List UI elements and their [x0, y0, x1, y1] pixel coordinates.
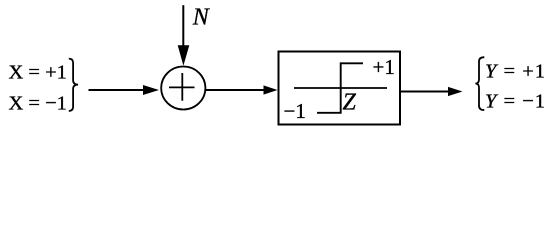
- output arrowhead: [448, 87, 463, 96]
- svg-text:Z: Z: [343, 90, 357, 116]
- svg-text:X = +1: X = +1: [9, 62, 67, 84]
- limiter box: [279, 52, 401, 125]
- svg-text:Y = +1: Y = +1: [485, 61, 546, 83]
- N arrowhead: [178, 45, 190, 66]
- limiter input arrowhead: [264, 85, 278, 94]
- svg-text:Y = −1: Y = −1: [485, 91, 546, 113]
- svg-text:−1: −1: [284, 99, 306, 123]
- svg-text:+1: +1: [373, 55, 395, 79]
- right brace: [475, 57, 484, 110]
- limiter step curve: [317, 63, 363, 113]
- left brace: [69, 59, 78, 111]
- input arrowhead: [143, 85, 159, 95]
- sum-to-limiter wire: [206, 89, 264, 91]
- limiter axis: [294, 87, 387, 89]
- svg-text:X = −1: X = −1: [9, 93, 67, 115]
- plus sign: [169, 73, 195, 101]
- summing node U1: [161, 67, 205, 110]
- input wire: [89, 89, 146, 91]
- output wire: [400, 91, 449, 93]
- N wire: [182, 5, 184, 47]
- svg-text:N: N: [192, 5, 211, 31]
